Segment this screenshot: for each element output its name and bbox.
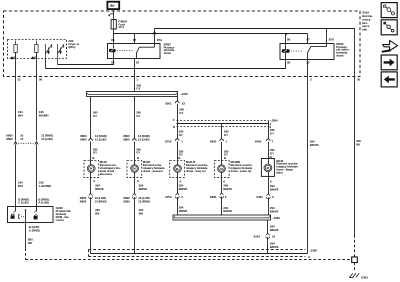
- wire col5 from rows down: [268, 121, 270, 140]
- svg-text:GY: GY: [136, 87, 140, 91]
- wire col1 295 GY bus to motor M142: [90, 97, 92, 140]
- wire label 194 WH upper: [18, 110, 23, 117]
- connector X800 pass-through arrows on circuits 194/195: [13, 141, 18, 145]
- ground G302 symbol: [349, 273, 359, 277]
- svg-text:86: 86: [287, 38, 291, 42]
- relay KR90 dotted link coil to switch: [291, 50, 303, 52]
- svg-text:GY: GY: [93, 151, 97, 155]
- relay KR87 box: [108, 44, 161, 59]
- svg-text:1: 1: [181, 139, 183, 143]
- motor M142 label: [100, 160, 121, 176]
- svg-text:6: 6: [272, 195, 274, 199]
- svg-text:BN/VE: BN/VE: [270, 228, 279, 232]
- svg-text:BN/VE: BN/VE: [179, 209, 188, 213]
- wire label 294 BN/VE on KR90 output: [310, 139, 319, 146]
- wire drop line A to relay KR87 pin 87: [134, 34, 136, 44]
- svg-text:30: 30: [136, 61, 140, 65]
- svg-text:86: 86: [111, 38, 115, 42]
- svg-text:L-BU/WH: L-BU/WH: [39, 184, 51, 188]
- svg-text:22: 22: [182, 102, 186, 106]
- junction node on line A feeding KR90 coil: [285, 33, 287, 35]
- svg-text:B: B: [137, 156, 139, 160]
- motor M14P label: [143, 160, 165, 173]
- motor M14LR left rear door lock actuator: [170, 161, 185, 178]
- svg-text:12 (LHD): 12 (LHD): [95, 137, 107, 141]
- relay KR87 name label: [164, 42, 176, 55]
- svg-text:BN/VE: BN/VE: [179, 187, 188, 191]
- wire drop line A to relay KR90 pin 87: [307, 34, 309, 44]
- svg-text:rowca: rowca: [56, 218, 65, 222]
- svg-text:7: 7: [272, 139, 274, 143]
- ground distribution dashed wire to G302 node: [25, 248, 27, 259]
- wire circuit 195 from pin 56 down to lock switch: [36, 53, 38, 141]
- svg-text:BN/VE: BN/VE: [95, 187, 104, 191]
- svg-text:G302: G302: [361, 276, 368, 280]
- connector X800 labels left column pins 10/14: [6, 134, 24, 141]
- svg-text:WH: WH: [18, 114, 23, 118]
- harness row solid: [177, 123, 269, 125]
- relay KR90 box: [280, 44, 334, 60]
- svg-text:drzwi - pasazer: drzwi - pasazer: [143, 169, 164, 173]
- wire col3 295 GY bus to X201-22 and rows: [177, 97, 179, 102]
- wire line A junction down to relay KR90 pin 86: [285, 34, 287, 44]
- wire col4 from solid row down: [221, 124, 223, 140]
- wire col2 295 GY bus to motor M14P: [134, 97, 136, 140]
- wire col4 motor to splice J263: [221, 178, 223, 194]
- ground run solid segment: [91, 253, 268, 255]
- wire labels 295 GY col1 + col2: [93, 110, 141, 117]
- connector X800 labels pin 13 RHD/LHD: [41, 134, 53, 141]
- pin letters D(RHD)/C(LHD) at lock switch: [18, 197, 29, 204]
- svg-text:B: B: [178, 156, 180, 160]
- pin letters B(RHD)/A(LHD) at lock switch: [38, 197, 49, 204]
- wire fuse to line A and relay KR87 coil pin 86: [113, 29, 115, 44]
- svg-text:~J237: ~J237: [180, 92, 188, 96]
- lock switch S43D label: [56, 206, 72, 222]
- module K9 BCM dashed boundary box: [4, 11, 361, 77]
- wire center circuit 295 from KR87 pin 30 to splice J237: [134, 59, 136, 92]
- svg-text:87A: 87A: [157, 38, 163, 42]
- svg-text:M: M: [220, 167, 223, 171]
- svg-text:BN/VE: BN/VE: [223, 209, 232, 213]
- switch S2 unlock position switch: [57, 44, 59, 65]
- wire label 850 BK: [28, 238, 33, 245]
- splice bus J237: [87, 92, 178, 97]
- svg-text:~J306: ~J306: [309, 249, 317, 253]
- pin A + wire 294 BN/VE col5: [270, 179, 279, 191]
- svg-text:GY: GY: [224, 133, 228, 137]
- arrow marker on 87A riser: [153, 30, 157, 34]
- wire label 295 GY col3 lower + pin B: [178, 149, 184, 160]
- svg-text:X201: X201: [254, 234, 261, 238]
- pin A + wire 294 BN/VE col1: [93, 179, 104, 191]
- connector X800 pin 3 col4: [220, 193, 224, 198]
- svg-text:M: M: [267, 166, 270, 170]
- svg-text:1: 1: [136, 78, 138, 82]
- toolbar icon jump arrow: [381, 40, 397, 52]
- wire label 295 GY col3 upper: [179, 108, 184, 115]
- wire switch S1 down through A60 box: [45, 59, 47, 69]
- wire label 295 GY col3 below rows: [179, 130, 184, 137]
- fuse F40DA label: [118, 19, 128, 29]
- svg-text:drzwi: drzwi: [336, 54, 343, 58]
- ground run dashed segment upper (J306): [89, 249, 306, 251]
- pin letters B(LHD)/C(RHD) below S43D: [29, 225, 40, 232]
- svg-text:X800: X800: [6, 137, 13, 141]
- junction dot ground lead inside S43D: [25, 209, 27, 211]
- svg-text:BK: BK: [28, 241, 33, 245]
- svg-text:GY: GY: [136, 151, 140, 155]
- connector X405 pin 7: [266, 138, 270, 141]
- relay KR87 pin labels top: 86 87 87A: [111, 38, 163, 42]
- motor M149 tailgate lock actuator (solid box): [261, 159, 274, 177]
- svg-text:drzwi - lewy tyl: drzwi - lewy tyl: [186, 169, 206, 173]
- bracket with dots detail: [18, 215, 20, 219]
- wire label 295 GY at pin 1: [136, 83, 141, 90]
- wire label 195 BU/WH upper: [39, 110, 49, 117]
- relay KR90 name label: [336, 42, 349, 58]
- wire bus line B (87A tie): [155, 29, 355, 236]
- svg-text:3: 3: [181, 195, 183, 199]
- svg-text:87: 87: [307, 38, 311, 42]
- svg-text:X800: X800: [123, 199, 130, 203]
- svg-text:15 A: 15 A: [118, 25, 125, 29]
- toolbar icon back (left arrow): [381, 72, 397, 87]
- switch S1 lock position switch: [45, 44, 47, 59]
- wire label 294 BN/VE col4 lower: [223, 206, 232, 213]
- wire label 294 BN/VE col5 lower: [270, 206, 279, 213]
- pin A + wire 294 BN/VE col2: [137, 179, 148, 191]
- connector X800 pin 13 col1: [89, 193, 93, 198]
- svg-text:GY: GY: [179, 133, 183, 137]
- svg-text:F: F: [173, 118, 175, 122]
- wire label 295 GY col4: [224, 130, 229, 137]
- svg-text:B: B: [92, 156, 94, 160]
- wire relay KR90 coil pin 85 to switch S1: [46, 60, 286, 69]
- wire label 350 BK on ground feed: [356, 139, 361, 146]
- relay KR90 coil vertical through box: [285, 44, 287, 50]
- svg-text:87A: 87A: [329, 38, 335, 42]
- svg-text:GY: GY: [136, 114, 140, 118]
- connector X201 pin 19: [266, 233, 270, 238]
- connector X201 pin 22: [175, 101, 179, 104]
- motor M14RR label: [231, 160, 253, 173]
- svg-text:30: 30: [306, 61, 310, 65]
- relay KR90 pin labels top: 86 87 87A: [287, 38, 335, 42]
- svg-text:BN/VE: BN/VE: [223, 187, 232, 191]
- svg-text:~J263: ~J263: [272, 216, 280, 220]
- wire riser relay KR87 pin 87A to line B: [154, 29, 156, 44]
- wire labels 295 GY + pin B col1/col2: [92, 147, 141, 160]
- ground run dashed segment lower: [89, 256, 306, 258]
- svg-text:A: A: [137, 179, 140, 183]
- lock sensor component at pin 21: [14, 45, 17, 53]
- wire label 295 GY col4 lower + pin B: [224, 149, 229, 160]
- svg-text:X405: X405: [255, 139, 262, 143]
- svg-text:12 (LHD): 12 (LHD): [138, 137, 150, 141]
- motor M14P passenger door lock actuator: [127, 161, 142, 178]
- toolbar icon next (right arrow): [381, 55, 397, 70]
- relay KR90 pin labels bottom: 85 30: [287, 61, 310, 65]
- relay KR90 coil: [282, 49, 290, 53]
- relay KR87 coil vertical through box: [113, 44, 115, 49]
- svg-text:BN/VE: BN/VE: [270, 187, 279, 191]
- svg-text:X800: X800: [80, 199, 87, 203]
- svg-text:13 (LHD): 13 (LHD): [41, 137, 53, 141]
- svg-text:BN/VE: BN/VE: [139, 187, 148, 191]
- connector X405 pin 6: [266, 194, 270, 199]
- svg-text:13 (RHD): 13 (RHD): [138, 199, 150, 203]
- toolbar icon zoom-out: [381, 3, 397, 18]
- svg-text:1: 1: [225, 139, 227, 143]
- switch pack A60 label: [68, 39, 80, 49]
- svg-text:A (LHD): A (LHD): [38, 201, 48, 205]
- svg-text:BN: BN: [95, 211, 99, 215]
- wire 294 BN/VE from splice J263 to X201-19: [267, 220, 269, 234]
- wire col1 motor to ground run: [90, 178, 92, 195]
- svg-text:BN/VE: BN/VE: [270, 245, 279, 249]
- svg-text:kierowca: kierowca: [100, 172, 112, 176]
- module K9 BCM name label: [362, 11, 373, 32]
- wire solid join to KR90 output at bottom: [268, 253, 308, 255]
- battery B+ box: [107, 2, 119, 9]
- connector X750 pin 1: [175, 138, 179, 141]
- svg-text:87: 87: [133, 38, 137, 42]
- svg-text:F: F: [270, 122, 272, 126]
- wire label 195 L-BU/WH lower: [39, 181, 51, 188]
- dashed hook joining upper/lower ground runs: [88, 250, 90, 257]
- wire col3 motor to splice J263: [177, 178, 179, 194]
- svg-text:X750: X750: [165, 195, 172, 199]
- dashed segment above ground node: [354, 235, 356, 257]
- svg-text:30: 30: [357, 78, 361, 82]
- padlock icon unlocked: [11, 214, 14, 216]
- harness row pin letters F/N and J264: [173, 118, 278, 129]
- motor M14RR right rear door lock actuator: [214, 161, 229, 178]
- svg-text:N: N: [173, 125, 175, 129]
- motor M14LR label: [186, 160, 208, 173]
- svg-text:B: B: [224, 156, 226, 160]
- wire label 294 BN col1: [95, 208, 100, 215]
- wire KR90 pin 30 output circuit 294 down right side: [307, 60, 309, 254]
- wire bus line A (B+ rail): [114, 33, 308, 35]
- svg-text:M: M: [133, 167, 136, 171]
- svg-text:19: 19: [272, 234, 276, 238]
- svg-text:GY: GY: [93, 114, 97, 118]
- lock switch S43D box: [8, 207, 54, 223]
- svg-text:X405: X405: [256, 195, 263, 199]
- svg-text:85: 85: [287, 61, 291, 65]
- svg-text:X800: X800: [210, 139, 217, 143]
- harness row dashed upper (to rear doors): [177, 120, 269, 122]
- svg-text:niki: niki: [362, 28, 367, 32]
- inline connector clip on B+ feed: [108, 14, 113, 17]
- ground node junction block: [352, 257, 358, 263]
- svg-text:BN/VE: BN/VE: [270, 210, 279, 214]
- svg-text:BN/VE: BN/VE: [310, 143, 319, 147]
- svg-text:X800: X800: [80, 137, 87, 141]
- wire labels 294 BN/VE around X201-19: [270, 224, 279, 249]
- relay KR87 switch arm and contact to 87A: [137, 47, 155, 58]
- wire label 295 GY col5 lower + pin B: [270, 148, 275, 159]
- svg-text:14: 14: [20, 137, 24, 141]
- svg-text:A: A: [270, 179, 273, 183]
- svg-text:drzwi - praw. tyl: drzwi - praw. tyl: [231, 169, 252, 173]
- svg-text:C (RHD): C (RHD): [29, 229, 40, 233]
- fuse F40DA: [111, 20, 116, 30]
- wire circuit 194 from pin 21 down to lock switch: [15, 53, 17, 141]
- svg-text:M: M: [176, 167, 179, 171]
- wire label 294 BN col2: [139, 208, 144, 215]
- svg-text:d: d: [308, 255, 310, 259]
- svg-text:X800: X800: [123, 137, 130, 141]
- svg-text:3: 3: [225, 195, 227, 199]
- svg-text:X201: X201: [165, 102, 172, 106]
- connector X800 pin 12 col1: [89, 138, 93, 141]
- wire B+ to fuse: [113, 9, 115, 20]
- pin F + wire label 295 GY col5: [270, 122, 275, 135]
- svg-text:X750: X750: [165, 139, 172, 143]
- motor M142 driver door lock actuator: [84, 161, 99, 178]
- svg-text:X800: X800: [210, 195, 217, 199]
- svg-text:BN: BN: [139, 211, 143, 215]
- padlock icon locked: [35, 215, 38, 216]
- pin A + wire 294 BN/VE col4: [223, 180, 232, 191]
- svg-text:56: 56: [39, 78, 43, 82]
- svg-text:C (LHD): C (LHD): [18, 201, 28, 205]
- svg-text:B+: B+: [110, 4, 114, 8]
- wire label 194 WH lower: [18, 181, 23, 188]
- connector X800 pin 1 col4: [220, 138, 224, 141]
- svg-text:21: 21: [18, 78, 22, 82]
- svg-text:QX2y: QX2y: [68, 45, 76, 49]
- connector X800 pin 13 col2: [132, 193, 136, 198]
- wire relay KR87 coil pin 85 to switch S2: [58, 59, 114, 65]
- wire col2 motor to ground run: [134, 178, 136, 195]
- motor M149 label: [276, 159, 298, 175]
- svg-text:tylna: tylna: [276, 170, 283, 174]
- svg-text:BU/WH: BU/WH: [39, 114, 49, 118]
- wire label 294 BN/VE col3 lower: [179, 206, 188, 213]
- connector X750 pin 3: [175, 193, 179, 198]
- lock sensor component at pin 56: [35, 45, 38, 53]
- wire riser relay KR90 pin 87A to line B: [326, 29, 328, 44]
- wire col5 motor to splice J263: [268, 177, 270, 195]
- relay KR87 dotted link coil to switch: [117, 50, 133, 52]
- toolbar icon zoom-in: [381, 20, 397, 35]
- connector X800 pin 12 col2: [132, 138, 136, 141]
- splice bus J263: [173, 215, 271, 220]
- svg-text:WH: WH: [18, 184, 23, 188]
- dashed segment below ground node: [354, 263, 356, 273]
- relay KR87 pin labels bottom: 85 30: [111, 61, 139, 65]
- wire ground 850 BK from S43D: [25, 210, 27, 248]
- svg-text:drzwi: drzwi: [164, 51, 171, 55]
- switch pack A60 dashed box: [8, 40, 67, 59]
- svg-text:GY: GY: [179, 111, 183, 115]
- pin A + wire 294 BN/VE col3: [179, 180, 188, 191]
- harness row dashed lower: [177, 126, 269, 128]
- relay KR87 coil: [109, 49, 116, 52]
- svg-text:GY: GY: [270, 132, 274, 136]
- svg-text:M: M: [90, 167, 93, 171]
- relay KR90 switch arm and contact to 87A: [308, 47, 327, 60]
- svg-text:2: 2: [310, 78, 312, 82]
- svg-text:13 (RHD): 13 (RHD): [95, 199, 107, 203]
- svg-text:A: A: [93, 179, 96, 183]
